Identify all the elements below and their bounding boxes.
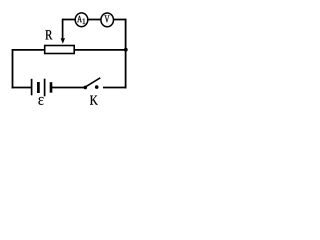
rheostat slider arrowhead (61, 38, 65, 44)
voltmeter V circle (101, 13, 114, 27)
ammeter A1 circle (75, 13, 88, 27)
label V (105, 15, 110, 22)
rheostat slider stem (62, 19, 64, 39)
switch lever (86, 78, 101, 87)
label epsilon (38, 97, 43, 105)
wire right vertical (125, 19, 127, 89)
node junction right (124, 48, 128, 52)
battery plate short thick 2 (37, 82, 40, 93)
switch right contact dot (95, 85, 99, 89)
wire battery to switch (51, 87, 85, 89)
wire switch to right corner (103, 87, 127, 89)
battery plate long 3 (44, 79, 46, 97)
label K (90, 96, 98, 105)
label R (45, 30, 52, 39)
wire top meter branch (63, 19, 126, 21)
battery plate long 1 (31, 79, 33, 96)
label A1 (77, 16, 82, 22)
wire bottom left to battery (12, 87, 32, 89)
resistor R box (45, 46, 74, 54)
wire left vertical (12, 49, 14, 88)
wire resistor row (13, 49, 126, 51)
battery plate short thick 4 (50, 82, 53, 93)
switch left contact dot (84, 86, 88, 90)
